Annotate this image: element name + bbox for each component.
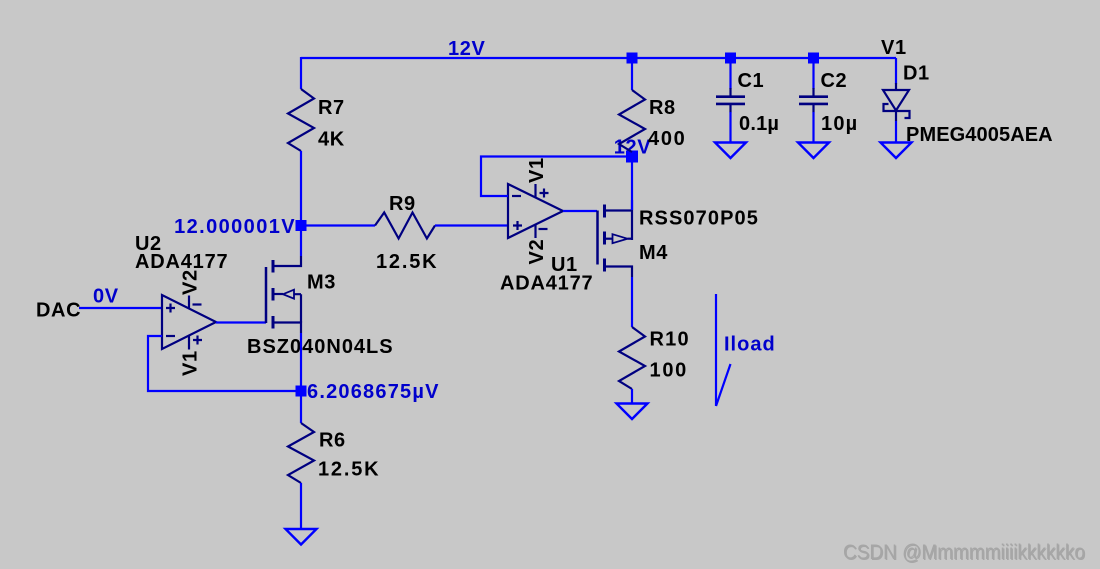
resistor R6 (288, 423, 380, 483)
svg-text:R10: R10 (650, 329, 690, 351)
capacitor C2 (799, 58, 858, 143)
transistor M4 (598, 200, 759, 277)
svg-text:V1: V1 (526, 157, 548, 183)
resistor R7 (288, 89, 345, 151)
svg-text:R8: R8 (649, 97, 676, 119)
wire U2 output to M3 gate (216, 321, 266, 323)
svg-text:D1: D1 (903, 63, 930, 85)
wire R9 to U1 noninverting input (435, 224, 508, 226)
resistor R9 (375, 193, 438, 273)
op-amp U1 (500, 157, 593, 294)
current arrow Iload (716, 294, 776, 406)
svg-text:PMEG4005AEA: PMEG4005AEA (906, 124, 1053, 146)
ground below C1 (715, 143, 746, 159)
svg-text:V2: V2 (526, 239, 548, 265)
ground below D1 (881, 143, 912, 159)
svg-text:4K: 4K (318, 129, 345, 151)
label 12.000001V (174, 216, 296, 238)
svg-text:CSDN @Mmmmmiiiikkkkkko: CSDN @Mmmmmiiiikkkkkko (843, 541, 1085, 564)
node B junction square (626, 151, 638, 163)
svg-text:DAC: DAC (36, 300, 81, 322)
wire M3 source down to node C (300, 333, 302, 391)
wire DAC input (79, 307, 162, 309)
svg-text:M3: M3 (307, 272, 336, 294)
svg-text:V1: V1 (881, 37, 907, 59)
wire R10 to ground (631, 389, 633, 404)
node 12V label (448, 38, 485, 60)
wire node C down to R6 (300, 396, 302, 423)
watermark (843, 541, 1086, 565)
svg-text:R9: R9 (389, 193, 416, 215)
op-amp U2 (135, 233, 228, 376)
wire node A to R9 (301, 224, 375, 226)
svg-text:R6: R6 (319, 430, 346, 452)
wire M3 drain up to node A (300, 226, 302, 256)
node rail-C1 junction square (725, 53, 736, 64)
label 12V at node B (614, 137, 651, 159)
svg-text:12.5K: 12.5K (318, 459, 380, 481)
wire feedback node B to U1 inverting input (481, 157, 632, 197)
svg-text:12.5K: 12.5K (376, 251, 438, 273)
wire M4 source up to node B (631, 157, 633, 210)
wire U2 feedback to node C (148, 336, 301, 391)
svg-text:ADA4177: ADA4177 (500, 273, 593, 295)
wire R6 to ground (300, 483, 302, 529)
wire R7 bottom to node A (300, 151, 302, 226)
svg-text:V2: V2 (180, 269, 202, 295)
svg-text:0.1µ: 0.1µ (739, 113, 779, 135)
ground below C2 (798, 143, 829, 159)
capacitor C1 (716, 58, 779, 143)
node C junction square (296, 386, 307, 397)
svg-text:RSS070P05: RSS070P05 (639, 208, 759, 230)
svg-text:12V: 12V (448, 38, 485, 60)
svg-text:6.2068675µV: 6.2068675µV (307, 381, 440, 403)
ground below R10 (617, 404, 648, 420)
svg-text:400: 400 (648, 128, 686, 150)
wire R8 top lead from rail (631, 57, 633, 90)
wire 12V top rail (301, 57, 896, 59)
diode D1 (883, 63, 1053, 147)
svg-text:12.000001V: 12.000001V (174, 216, 296, 238)
svg-text:M4: M4 (639, 242, 668, 264)
resistor R8 (619, 90, 686, 152)
svg-text:R7: R7 (318, 97, 345, 119)
svg-text:ADA4177: ADA4177 (135, 251, 228, 273)
wire U1 output to M4 gate (563, 210, 597, 212)
node A junction square (296, 220, 307, 231)
svg-text:BSZ040N04LS: BSZ040N04LS (247, 336, 394, 358)
svg-text:100: 100 (650, 360, 688, 382)
wire R7 top lead from rail (300, 57, 302, 89)
node rail-R8 junction square (627, 53, 638, 64)
label V1 (881, 37, 907, 59)
node rail-C2 junction square (808, 53, 819, 64)
svg-text:0V: 0V (93, 286, 119, 308)
ground below R6 (286, 529, 317, 545)
label 6.2068675µV (307, 381, 440, 403)
svg-text:Iload: Iload (724, 334, 776, 356)
svg-text:C1: C1 (738, 70, 765, 92)
label DAC (36, 300, 81, 322)
wire D1 to ground (895, 121, 897, 143)
resistor R10 (619, 327, 690, 389)
svg-text:C2: C2 (821, 70, 848, 92)
wire rail corner down to D1 (895, 58, 897, 84)
transistor M3 (247, 256, 394, 358)
svg-text:10µ: 10µ (821, 113, 858, 135)
svg-text:V1: V1 (180, 350, 202, 376)
wire M4 drain down to R10 (631, 277, 633, 327)
label 0V (93, 286, 119, 308)
